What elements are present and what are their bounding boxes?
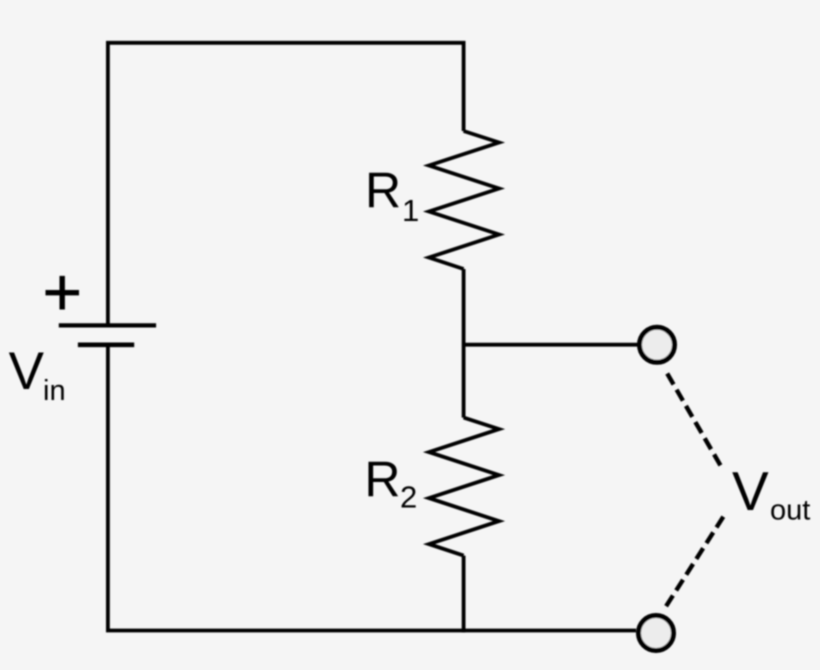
svg-text:R: R: [364, 452, 400, 508]
svg-text:in: in: [43, 375, 66, 407]
svg-text:out: out: [770, 494, 810, 526]
svg-text:2: 2: [400, 479, 417, 514]
svg-text:V: V: [9, 342, 45, 401]
svg-text:R: R: [365, 163, 401, 219]
svg-text:1: 1: [402, 193, 419, 228]
svg-text:V: V: [732, 460, 769, 522]
